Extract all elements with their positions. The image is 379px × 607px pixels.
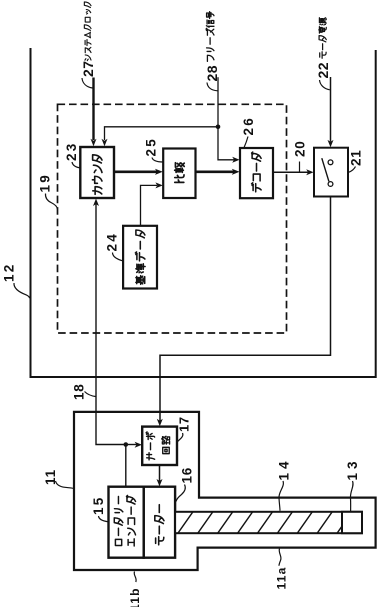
text モーター in box 16 xyxy=(155,505,164,545)
text エンコーダ in box 15 col2 xyxy=(126,495,135,546)
svg-text:26: 26 xyxy=(241,116,256,135)
leader 16 xyxy=(176,485,185,502)
text サーボ in box 17 col1 xyxy=(146,432,155,460)
screw shaft 14 outline xyxy=(175,512,362,533)
shaft hatching xyxy=(178,512,342,533)
box 15 rotary encoder xyxy=(109,487,144,558)
wire: motor power 22 drop xyxy=(330,77,332,142)
text 基準データ in box 24 xyxy=(135,230,145,284)
switch blade xyxy=(322,158,329,181)
wire: freeze feedback to counter xyxy=(105,127,219,140)
svg-text:28: 28 xyxy=(204,65,220,82)
enclosure box 12 (open top) xyxy=(31,48,376,377)
arrow into motor top xyxy=(157,479,163,486)
box 26 decoder xyxy=(240,148,273,198)
arrow into decoder (freeze) xyxy=(232,157,239,163)
svg-text:19: 19 xyxy=(38,173,53,192)
wire: counter to comparator (bus) xyxy=(115,171,157,174)
text デコーダ in box 26 xyxy=(252,152,262,192)
junction encoder node xyxy=(124,442,129,447)
svg-text:22: 22 xyxy=(315,62,331,79)
wire: encoder branch to servo xyxy=(126,444,137,446)
svg-text:16: 16 xyxy=(180,467,195,484)
wire 18: encoder output up to counter xyxy=(96,204,126,487)
leader 17 xyxy=(178,433,183,441)
box 25 comparator xyxy=(163,149,195,199)
text 比較 in box 25 xyxy=(175,163,185,183)
svg-text:15: 15 xyxy=(91,496,106,515)
leader 22 xyxy=(320,80,330,90)
svg-text:13: 13 xyxy=(345,457,360,480)
box 21 switch xyxy=(314,148,348,197)
svg-text:11a: 11a xyxy=(275,567,289,590)
leader 25 xyxy=(152,158,163,163)
wire: reference data into comparator xyxy=(141,185,158,225)
arrow into comparator (ref) xyxy=(155,182,162,188)
svg-text:17: 17 xyxy=(177,416,192,432)
leader 12 xyxy=(14,283,30,298)
leader 11a xyxy=(279,549,281,566)
arrow up into counter bottom xyxy=(93,199,99,206)
svg-text:11b: 11b xyxy=(128,587,142,607)
leader 27 xyxy=(82,78,93,88)
wire: system clock 27 into counter xyxy=(92,78,94,141)
leader 11b xyxy=(134,572,136,583)
svg-text:12: 12 xyxy=(2,263,17,282)
svg-text:20: 20 xyxy=(293,140,308,157)
wire: switch output to servo xyxy=(160,197,331,421)
box 24 reference data xyxy=(123,226,157,289)
leader 15 xyxy=(99,516,109,522)
shaft tip 13 xyxy=(342,512,362,533)
text 回路 in box 17 col2 xyxy=(162,436,170,453)
text カウンタ in box 23 xyxy=(92,155,102,195)
leader 21 xyxy=(349,167,356,173)
svg-text:24: 24 xyxy=(105,232,120,251)
arrow into switch top xyxy=(328,140,334,147)
leader 18 xyxy=(85,392,96,397)
arrow into servo left xyxy=(135,442,142,448)
dashed block 19 xyxy=(58,104,287,333)
svg-text:25: 25 xyxy=(144,137,159,156)
wire: freeze to decoder xyxy=(218,127,235,160)
text ロータリー in box 15 col1 xyxy=(114,496,123,545)
leader 24 xyxy=(113,253,123,261)
box 16 motor xyxy=(144,487,175,558)
arrow into comparator (bus) xyxy=(155,169,163,175)
svg-text:27: 27 xyxy=(80,60,96,77)
svg-text:21: 21 xyxy=(349,149,364,166)
junction freeze node xyxy=(216,125,221,130)
leader 23 xyxy=(72,162,80,168)
leader 26 xyxy=(244,137,248,148)
wire: freeze signal 28 drop xyxy=(217,77,219,127)
svg-text:14: 14 xyxy=(277,457,292,480)
motor assembly housing 11/11a outline xyxy=(74,412,376,570)
arrow into servo top xyxy=(157,419,163,426)
box 17 servo circuit xyxy=(142,427,177,465)
arrow into switch box xyxy=(306,169,313,175)
wire: comparator to decoder (bus) xyxy=(196,171,234,174)
wire 20: decoder to switch xyxy=(273,171,308,173)
leader 14 xyxy=(279,481,283,511)
arrow into decoder (bus) xyxy=(232,169,240,175)
leader 19 xyxy=(45,194,57,209)
box 23 counter xyxy=(80,147,114,198)
leader 20 xyxy=(299,162,301,172)
leader 13 xyxy=(350,481,353,513)
arrow into counter top (freeze) xyxy=(102,139,108,146)
svg-text:23: 23 xyxy=(64,142,79,161)
arrow into counter top (clock) xyxy=(91,139,97,146)
switch contact upper circle xyxy=(328,160,333,165)
leader 11 xyxy=(56,481,74,489)
wire: servo to motor xyxy=(159,465,161,481)
svg-text:18: 18 xyxy=(72,383,87,400)
leader 28 xyxy=(207,83,218,91)
switch contact lower circle xyxy=(328,182,333,187)
